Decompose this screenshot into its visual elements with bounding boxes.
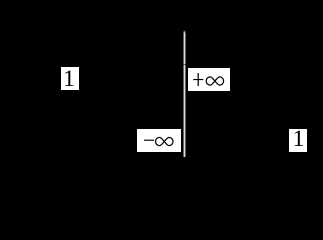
soft top cap of line: [183, 30, 186, 33]
box value 1 (lower right): [289, 129, 307, 152]
infinity symbol: [155, 137, 173, 145]
box value +infinity (upper right of line): [188, 68, 231, 91]
minus sign: [144, 139, 154, 141]
box value 1 (upper left): [61, 67, 79, 90]
plus sign: [197, 73, 199, 86]
box value -infinity (lower, left of line): [137, 129, 181, 152]
infinity symbol: [206, 77, 223, 85]
vertical separator line: [183, 30, 186, 157]
dark crossing where black horizontal rule overlaps the line: [183, 64, 186, 65]
